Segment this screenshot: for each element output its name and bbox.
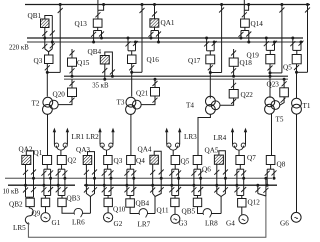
svg-text:Q1: Q1 (34, 149, 43, 157)
svg-text:G1: G1 (52, 219, 61, 227)
svg-text:LR4: LR4 (214, 134, 227, 142)
svg-text:G3: G3 (179, 220, 188, 228)
svg-text:Q17: Q17 (188, 57, 201, 65)
svg-text:Q6: Q6 (202, 166, 211, 174)
svg-text:G6: G6 (280, 220, 289, 228)
svg-text:T2: T2 (32, 100, 40, 108)
svg-text:LR2: LR2 (86, 133, 99, 141)
svg-text:Q2: Q2 (68, 157, 77, 165)
svg-text:QB4: QB4 (136, 200, 150, 208)
svg-text:Q16: Q16 (147, 56, 160, 64)
svg-text:Q13: Q13 (75, 20, 88, 28)
svg-text:Q21: Q21 (136, 90, 149, 98)
svg-text:Q3: Q3 (114, 157, 123, 165)
svg-text:Q12: Q12 (248, 199, 261, 207)
svg-text:Q10: Q10 (113, 206, 126, 214)
svg-text:LR8: LR8 (205, 220, 218, 228)
svg-text:QA1: QA1 (161, 19, 175, 27)
svg-text:Q19: Q19 (247, 52, 260, 60)
svg-text:Q5: Q5 (181, 158, 190, 166)
svg-text:T4: T4 (186, 102, 194, 110)
svg-text:Q8: Q8 (277, 161, 286, 169)
svg-text:QA5: QA5 (205, 147, 219, 155)
svg-text:Q20: Q20 (53, 91, 66, 99)
svg-text:10 кВ: 10 кВ (3, 189, 20, 196)
svg-text:220 кВ: 220 кВ (9, 44, 29, 51)
svg-text:T3: T3 (117, 99, 125, 107)
svg-text:LR7: LR7 (138, 221, 151, 229)
svg-text:T5: T5 (276, 116, 284, 124)
svg-text:Q18: Q18 (240, 59, 253, 67)
svg-text:Q14: Q14 (251, 20, 264, 28)
svg-text:QB2: QB2 (9, 201, 23, 209)
svg-text:QA3: QA3 (76, 146, 90, 154)
svg-text:LR1: LR1 (72, 133, 85, 141)
svg-text:Q3: Q3 (34, 57, 43, 65)
svg-text:LR6: LR6 (72, 219, 85, 227)
svg-text:35 кВ: 35 кВ (92, 82, 109, 89)
svg-text:LR5: LR5 (13, 224, 26, 232)
svg-text:Q7: Q7 (247, 154, 256, 162)
svg-text:Q11: Q11 (157, 207, 170, 215)
svg-text:Q4: Q4 (136, 157, 145, 165)
svg-text:QB5: QB5 (182, 208, 196, 216)
svg-text:Q23: Q23 (267, 81, 280, 89)
svg-text:QB4: QB4 (88, 48, 102, 56)
svg-text:Q5: Q5 (283, 64, 292, 72)
svg-text:QA4: QA4 (138, 146, 152, 154)
svg-text:G4: G4 (226, 220, 235, 228)
svg-text:QB3: QB3 (67, 195, 81, 203)
svg-text:G2: G2 (114, 220, 123, 228)
svg-text:Q15: Q15 (77, 59, 90, 67)
svg-text:QB1: QB1 (28, 12, 42, 20)
svg-text:Q22: Q22 (241, 91, 254, 99)
svg-text:LR3: LR3 (184, 133, 197, 141)
svg-text:T1: T1 (303, 102, 311, 110)
svg-text:QA2: QA2 (19, 146, 33, 154)
